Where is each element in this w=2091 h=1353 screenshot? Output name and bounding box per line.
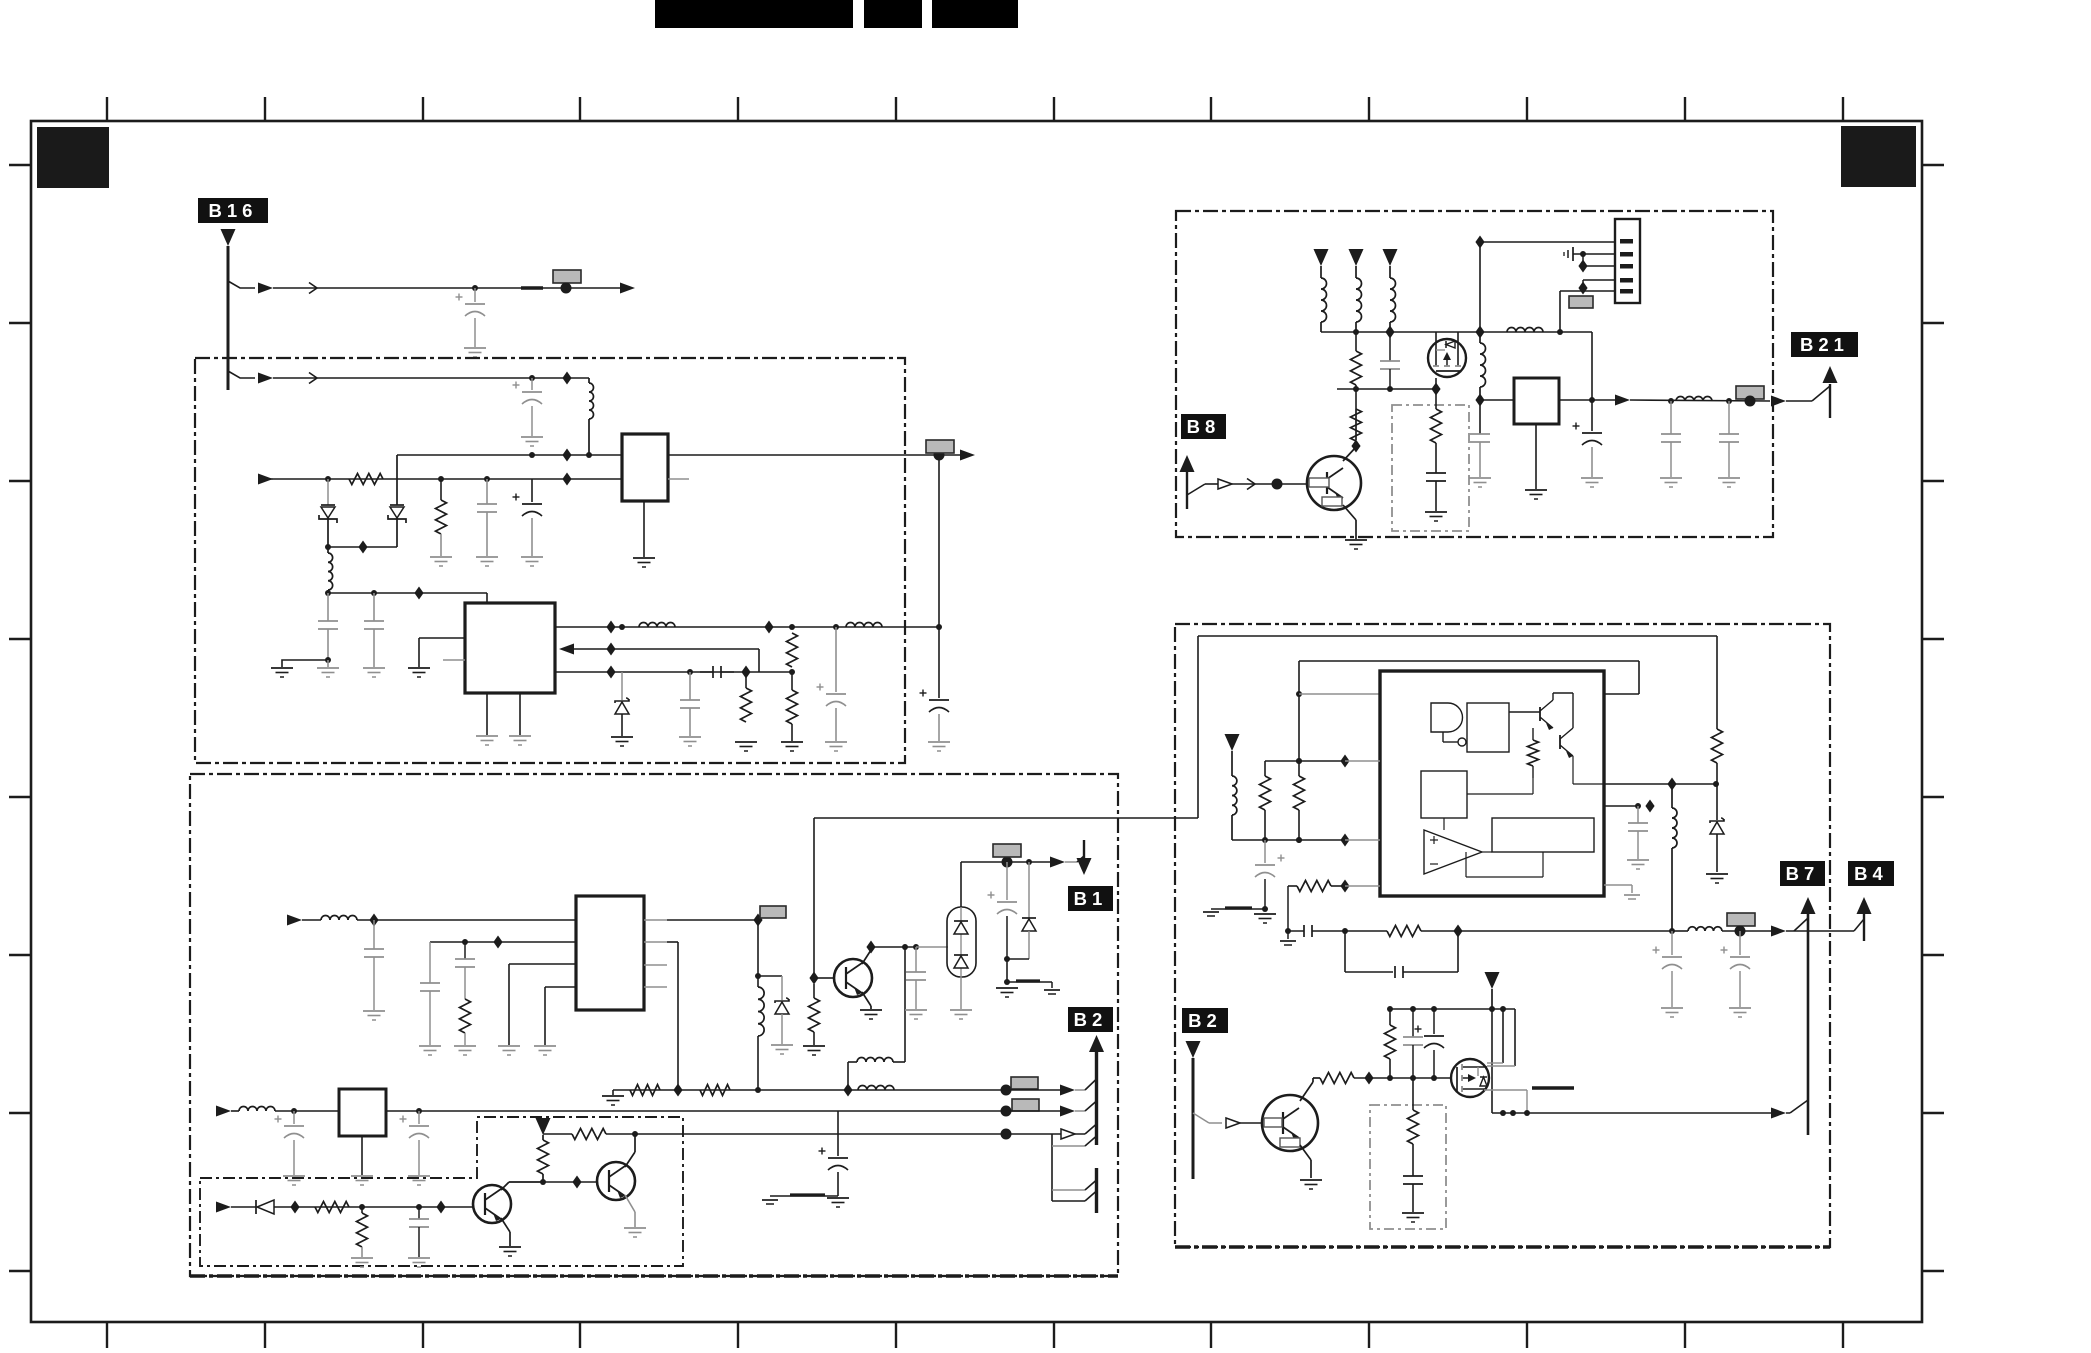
diode D19 [1028, 862, 1030, 918]
transistor Q5 (digital) [1307, 456, 1361, 510]
Q1 collector [501, 1182, 509, 1190]
resistor R8 [700, 1085, 730, 1096]
open arrow B8 [1218, 479, 1232, 489]
resistor R2 [440, 479, 442, 500]
junction D4 [358, 541, 367, 554]
capacitor C12 [429, 942, 431, 983]
value label (redacted) B4 net [1727, 913, 1755, 926]
MOSFET Q6 [1428, 339, 1466, 377]
junction D27 [1475, 394, 1484, 407]
node row 547 [328, 546, 397, 548]
svg-text:B1: B1 [1074, 888, 1108, 909]
title bar 3 (redacted) [932, 0, 1018, 28]
resistor R1 [349, 474, 383, 485]
diode D18b [954, 954, 968, 956]
capacitor C9 (elec) [835, 627, 837, 692]
wire D input [216, 1202, 231, 1213]
row 840 [1232, 839, 1345, 841]
value label (redacted) U1 out [926, 440, 954, 453]
wire C input [216, 1106, 231, 1117]
arrow on wire 1 [258, 283, 273, 294]
junction D29 [1340, 755, 1349, 768]
svg-text:B2: B2 [1074, 1009, 1108, 1030]
node row 947 [871, 946, 916, 948]
rail 332 [1321, 331, 1592, 333]
U6 logic gate [1431, 703, 1463, 732]
wire C row 1111 [386, 1110, 1006, 1112]
value label (redacted) U3 pin [760, 906, 786, 918]
row 931 left [1288, 930, 1304, 932]
resistor R23 [1389, 1009, 1391, 1025]
net Q3 collector filter [904, 947, 906, 1062]
zener VR1 [621, 672, 623, 700]
svg-text:B7: B7 [1786, 863, 1820, 884]
arrow to B21 [1771, 396, 1786, 407]
ground of R2 [430, 556, 452, 558]
resistor R20 [1288, 885, 1297, 887]
U6 transistor pair [1539, 707, 1541, 721]
ground jog C5 [282, 660, 328, 667]
block 3 boundary (UHF converter) [1176, 211, 1773, 537]
node J8 [291, 1108, 297, 1114]
svg-text:B21: B21 [1800, 334, 1849, 355]
junction D24 [1351, 440, 1360, 453]
net B16 bus [227, 246, 230, 390]
inductor L13 [1231, 751, 1233, 776]
C22 cap [1479, 400, 1481, 434]
junction D5 [414, 587, 423, 600]
node J12 [1353, 386, 1359, 392]
capacitor C8 [689, 672, 691, 700]
inductor L15 [1671, 784, 1673, 808]
junction D21 [290, 1201, 299, 1214]
IC U4 (regulator) [339, 1089, 386, 1136]
capacitor C28 (elec) [1739, 931, 1741, 955]
supply row 1134 [543, 1133, 572, 1135]
resistor R5 [791, 672, 793, 690]
junction D2 [562, 449, 571, 462]
port B8 stub [1180, 455, 1195, 472]
port B21 stub [1829, 384, 1831, 418]
junction D30 [1340, 834, 1349, 847]
ground of C3 [476, 556, 498, 558]
junction D22 [436, 1201, 445, 1214]
junction D17 [866, 941, 875, 954]
capacitor C13 + resistor R6 [464, 942, 466, 959]
Q5 emitter [1343, 505, 1356, 520]
junction D10 [741, 666, 750, 679]
U6 block B [1421, 771, 1467, 818]
junction D11 [369, 914, 378, 927]
frame ticks left [9, 165, 31, 1271]
node J7 [1001, 1085, 1012, 1096]
svg-text:B16: B16 [209, 200, 258, 221]
resistor R10 [315, 1202, 349, 1213]
resistor R16 [1435, 389, 1437, 409]
resistor R9 [813, 984, 815, 998]
resistor R18 [1264, 761, 1266, 776]
row 1078 [1354, 1077, 1450, 1079]
U1 output wire [668, 454, 968, 456]
transistor Q1 [473, 1185, 511, 1223]
junction D9 [606, 666, 615, 679]
bus bracket 1 [1052, 1189, 1085, 1191]
corner block top-left (redacted) [37, 127, 109, 188]
row 1113 [1492, 1112, 1776, 1114]
U3 left pin 987 [545, 986, 576, 988]
U2 left stub [443, 659, 465, 661]
diode CR2 [396, 455, 398, 505]
capacitor C15 (elec) [1006, 862, 1008, 900]
IC U6 (PLL) [1380, 671, 1604, 896]
capacitor C11 [373, 920, 375, 949]
row 931 wire [1345, 930, 1387, 932]
ground of C1 [464, 347, 486, 349]
inner sub-block boundary [200, 1117, 683, 1266]
row 1009 [1390, 1008, 1515, 1010]
arrow on wire 3 [258, 474, 273, 485]
junction D35 [1364, 1072, 1373, 1085]
capacitor C24 [1670, 401, 1672, 434]
U5 left pin [1480, 399, 1514, 401]
transistor Q4 (digital) [1262, 1095, 1318, 1151]
antenna coil 1 [1314, 249, 1329, 266]
port label B1 [1068, 886, 1113, 911]
net inter-block (B+ line) [814, 817, 1198, 819]
junction D25 [1385, 326, 1394, 339]
C18 ground link [770, 1195, 838, 1197]
P1 pin3 wire [1583, 265, 1615, 267]
node J4 [934, 450, 945, 461]
capacitor C31 (elec) [1433, 1009, 1435, 1034]
capacitor C1 (elec) [474, 288, 476, 302]
U6 block A [1467, 703, 1509, 752]
row 806 [1604, 805, 1638, 807]
junction D13 [753, 914, 762, 927]
U5 ground [1535, 424, 1537, 489]
node J2 [561, 283, 572, 294]
block 2 bottom heavy edge [190, 1274, 1118, 1278]
riser into U2 [486, 593, 488, 603]
arrow row 1134 [1006, 1133, 1061, 1135]
arrow to B7 [1771, 1108, 1786, 1119]
svg-text:B2: B2 [1188, 1010, 1222, 1031]
rail left riser [1298, 661, 1300, 776]
corner block top-right (redacted) [1841, 126, 1916, 187]
antenna coil 3 [1383, 249, 1398, 266]
resistor R7 [630, 1085, 660, 1096]
inductor L12 [1676, 397, 1712, 402]
capacitor C4 (elec) [531, 479, 533, 502]
port label B21 [1791, 332, 1858, 357]
port B1 stub [1083, 840, 1085, 858]
resistor R24 [1412, 1078, 1414, 1110]
resistor R11 [361, 1207, 363, 1213]
value label (redacted) P1 [1569, 296, 1593, 308]
value label (redacted) row 1090 [1011, 1077, 1038, 1089]
bus bracket 2 [1052, 1200, 1085, 1202]
AGC row 1090 [613, 1089, 1006, 1091]
net to B1 [960, 862, 962, 907]
junction D8 [606, 643, 615, 656]
Q4 collector [1300, 1082, 1313, 1101]
value label (redacted) wire 1 [553, 270, 581, 283]
U2 feedback row 649 [559, 644, 574, 655]
sub-box AFC [1370, 1105, 1446, 1229]
title bar 1 (redacted) [655, 0, 853, 28]
Q2 collector [625, 1152, 635, 1167]
zener VR2 [758, 975, 782, 977]
node J16 [1669, 928, 1675, 934]
arrow row 1111 [1006, 1110, 1061, 1112]
U2 left pin wire [419, 637, 465, 639]
arrow to B4 [1672, 930, 1688, 932]
wire B16 branch 1 [228, 281, 255, 288]
resistor R13 [572, 1129, 606, 1140]
U2 ground pin 1 [486, 693, 488, 735]
polarity dash on wire 1 [521, 286, 543, 289]
connector P1 [1615, 219, 1640, 303]
transistor Q3 base lead [818, 977, 834, 979]
svg-text:B8: B8 [1187, 416, 1221, 437]
frame ticks right [1922, 165, 1944, 1271]
node row 593 [328, 592, 487, 594]
arrow row 1090 [1006, 1089, 1061, 1091]
NC bar [1532, 1086, 1574, 1089]
inductor L4 [846, 623, 882, 628]
capacitor C29 [1637, 806, 1639, 823]
Q3 collector [862, 950, 871, 964]
resistor R19 [1294, 776, 1305, 810]
port B16 entry arrow [221, 229, 236, 246]
inductor L5 [321, 916, 357, 921]
svg-text:B4: B4 [1854, 863, 1888, 884]
Q2 emitter [625, 1195, 635, 1212]
resistor R14 [1355, 409, 1357, 440]
P1 pin4 wire [1583, 279, 1615, 281]
direction chevron wire 1 [309, 283, 317, 294]
capacitor C16 (elec) [293, 1111, 295, 1124]
diode CR1 [327, 479, 329, 505]
junction D26 [1431, 383, 1440, 396]
junction D15 [843, 1084, 852, 1097]
ground of C4 [521, 556, 543, 558]
block 1 boundary (tuner supply) [195, 358, 905, 763]
junction D16 [809, 972, 818, 985]
IC U5 (osc) [1514, 378, 1559, 424]
feedback loop [1344, 886, 1346, 931]
resistor R3 [745, 672, 747, 688]
wire A input [287, 915, 302, 926]
capacitor C5 [327, 593, 329, 621]
wire B row 942 [430, 941, 576, 943]
inductor L2 [327, 547, 329, 553]
port B7 stub [1807, 913, 1810, 1135]
inductor L1 [588, 378, 590, 383]
direction chevron wire 2 [309, 373, 317, 384]
sub-box osc [1392, 405, 1469, 531]
capacitor C10 (elec) [929, 699, 949, 701]
capacitor C26 (elec) [1264, 840, 1266, 863]
wire 3 input [261, 478, 273, 480]
U3 right stub 920 [644, 919, 667, 921]
U2 ground pin 2 [519, 693, 521, 735]
arrow out wire 1 [620, 283, 635, 294]
U6 opamp [1424, 830, 1482, 874]
inner top rail [1299, 660, 1639, 662]
Q7 source wire [1484, 1089, 1527, 1091]
row 389 [1337, 388, 1436, 390]
resistor R4 [787, 633, 798, 667]
capacitor C14 [915, 947, 917, 972]
Q4 emitter [1300, 1145, 1311, 1160]
inductor L14 [1688, 927, 1722, 931]
supply arrow S2 [1225, 734, 1240, 751]
U6 internal wires [1443, 818, 1445, 830]
junction D1 [562, 372, 571, 385]
Q1 emitter [501, 1218, 510, 1232]
IC U2 (IF amp) [465, 603, 555, 693]
port B2 bus arrow [1089, 1035, 1104, 1052]
capacitor C32 [1403, 1175, 1423, 1177]
junction D23 [572, 1176, 581, 1189]
resistor R12 [542, 1135, 544, 1140]
U3 right stub 987 [644, 986, 667, 988]
P1 pin1 wire [1480, 241, 1615, 243]
P1 pin5 wire [1560, 290, 1615, 292]
MOSFET Q7 [1451, 1059, 1489, 1097]
title bar 2 (redacted) [864, 0, 922, 28]
B2 tap wire [1193, 1113, 1209, 1123]
frame ticks bottom [107, 1322, 1843, 1348]
feedback drop [1287, 886, 1289, 931]
U3 right stub 965 [644, 964, 667, 966]
Q3 emitter [862, 992, 871, 1006]
capacitor C6 [373, 593, 375, 621]
transformer lines [1491, 1009, 1493, 1113]
wire 2 from B16 [228, 371, 255, 378]
capacitor C18 (elec) [837, 1111, 839, 1156]
IC U3 (tuner) [576, 896, 644, 1010]
inductor L9 [239, 1107, 275, 1112]
junction D31 [1340, 880, 1349, 893]
diode D18a [954, 920, 968, 922]
junction D7 [764, 621, 773, 634]
junction D33 [1667, 778, 1676, 791]
ground of C6 [363, 667, 385, 669]
zener VR3 [1716, 784, 1718, 820]
node J1 [472, 285, 478, 291]
U4 ground pin [361, 1136, 363, 1175]
diode D20 [255, 1200, 257, 1214]
junction D3 [562, 473, 571, 486]
junction D6 [606, 621, 615, 634]
inductor L3 [639, 623, 675, 628]
node J17 [1735, 926, 1746, 937]
top rail 240 [1475, 236, 1484, 249]
net W1 riser [1197, 636, 1199, 818]
block 2 boundary (tuner/IF) [190, 774, 1118, 1276]
port B4 stub [1863, 913, 1865, 941]
U6 inverter bubble [1458, 738, 1466, 746]
U5 out row [1559, 399, 1616, 401]
port B2 stub [1186, 1041, 1201, 1058]
junction D28b [1578, 282, 1587, 295]
net riser Q3 base [813, 818, 815, 978]
supply arrow S1 [536, 1118, 551, 1135]
junction D32 [1453, 925, 1462, 938]
U2 out row 627 [555, 626, 939, 628]
U2 row 672 [555, 671, 792, 673]
link bar [1007, 981, 1052, 983]
inductor L6 [757, 976, 759, 987]
dual diode D18 package [947, 907, 976, 977]
ground of C5 [327, 660, 329, 667]
resistor R21 [1387, 926, 1421, 937]
port label B7 [1780, 861, 1825, 886]
net drop from D13 [757, 920, 759, 976]
open arrow B2 [1226, 1118, 1240, 1128]
node J11 [1272, 479, 1283, 490]
port label B2 right [1182, 1008, 1228, 1033]
node J10 [359, 1204, 365, 1210]
junction D14 [673, 1084, 682, 1097]
U6 pin 694 [1299, 693, 1380, 695]
junction D12 [493, 936, 502, 949]
U3 left pin 964 [509, 963, 576, 965]
bus lower segment [1095, 1168, 1098, 1213]
capacitor C23 (elec) [1591, 400, 1593, 431]
inductor L8 [857, 1058, 893, 1063]
Q5 collector [1343, 447, 1356, 461]
P1 pin2 wire [1583, 253, 1615, 255]
series capacitor C7 [712, 666, 714, 678]
supply arrow S3 [1485, 972, 1500, 989]
arrow out block 1 [960, 450, 975, 461]
value label (redacted) B1 net [993, 844, 1021, 857]
arrow to B1 [1050, 857, 1065, 868]
U3 right pin 942 [644, 941, 667, 943]
value label (redacted) B21 net [1736, 386, 1764, 399]
node J13 [1668, 398, 1674, 404]
junction D34 [1645, 800, 1654, 813]
block 4 bottom heavy edge [1175, 1245, 1830, 1249]
node J14 [1726, 398, 1732, 404]
row 784 [1604, 783, 1717, 785]
antenna coil 2 [1349, 249, 1364, 266]
value label (redacted) row 1111 [1012, 1099, 1039, 1111]
inductor L7 [858, 1086, 894, 1091]
chevron B8 [1247, 479, 1255, 490]
node drop [1006, 959, 1008, 982]
block 4 boundary (PLL/5V) [1175, 624, 1830, 1247]
capacitor C27 (elec) [1671, 931, 1673, 955]
node J5 [325, 476, 331, 482]
U6 resistor [1528, 740, 1539, 766]
capacitor C17 (elec) [418, 1111, 420, 1124]
ground bar row [1211, 908, 1265, 910]
frame ticks top [107, 97, 1843, 121]
B8 entry wire [1187, 484, 1205, 495]
node J15 [1745, 396, 1756, 407]
base row 1182 [543, 1181, 598, 1183]
port label B8 [1181, 414, 1226, 439]
node J6 [438, 476, 444, 482]
capacitor C25 [1728, 401, 1730, 434]
node J9 [1001, 1106, 1012, 1117]
net riser to filter [938, 455, 940, 698]
capacitor C21 [1426, 472, 1446, 474]
